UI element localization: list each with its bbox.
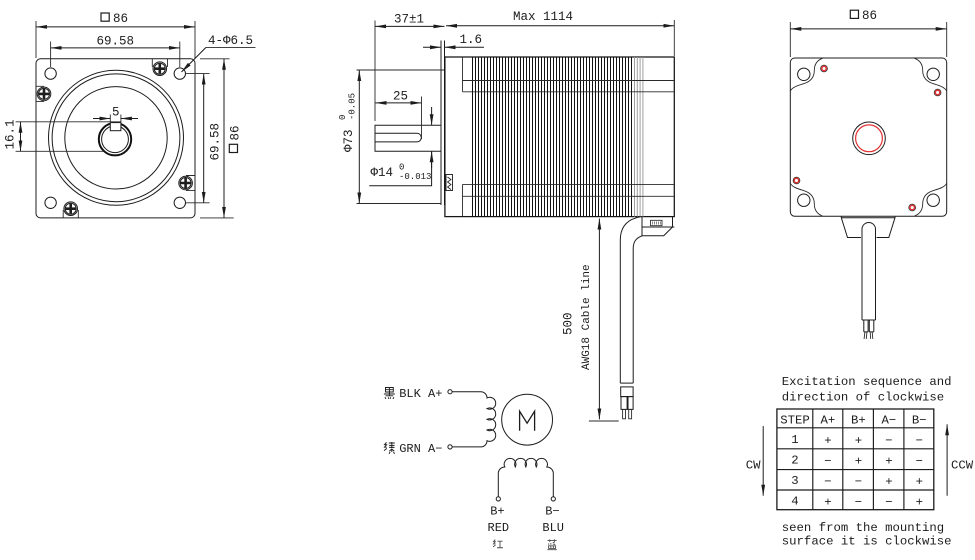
cooling fins bbox=[473, 57, 632, 217]
rear hole TR bbox=[927, 68, 939, 80]
svg-text:86: 86 bbox=[113, 12, 128, 26]
svg-text:-0.013: -0.013 bbox=[399, 172, 431, 182]
connector body bbox=[621, 387, 633, 397]
dim 5 lines bbox=[110, 115, 121, 123]
rear hole BR bbox=[927, 194, 939, 206]
svg-text:RED: RED bbox=[488, 521, 510, 535]
svg-text:37±1: 37±1 bbox=[394, 13, 424, 27]
red pin BL bbox=[793, 177, 800, 184]
letter M bbox=[520, 411, 535, 431]
cable gland side bbox=[642, 217, 674, 236]
dim sq86 top label bbox=[101, 12, 128, 26]
leader 4-phi6.5 bbox=[206, 46, 256, 48]
screw top bbox=[153, 62, 167, 76]
svg-text:−: − bbox=[855, 475, 862, 489]
svg-text:1: 1 bbox=[791, 433, 798, 447]
svg-text:86: 86 bbox=[862, 9, 877, 23]
screw right bbox=[179, 176, 193, 190]
rear gland trapezoid bbox=[841, 216, 895, 237]
dim 16.1 line bbox=[20, 122, 22, 152]
dim phi73 label bbox=[338, 93, 358, 152]
terminal B+ bbox=[496, 497, 500, 501]
shaft circle bold bbox=[99, 123, 131, 155]
dim 25 extension bbox=[421, 97, 423, 140]
svg-text:1.6: 1.6 bbox=[460, 33, 483, 47]
coil A wire bbox=[452, 392, 496, 447]
svg-text:+: + bbox=[885, 475, 892, 489]
svg-text:25: 25 bbox=[393, 90, 408, 104]
rear wire pins bbox=[864, 332, 873, 339]
dim 500 line bbox=[598, 219, 600, 420]
dim phi14 label bbox=[371, 163, 432, 183]
dim Max1114 line bbox=[446, 25, 674, 27]
dim 16.1 extension lines bbox=[16, 122, 121, 152]
label BLK A+ with hei glyph bbox=[384, 388, 395, 399]
svg-text:4: 4 bbox=[791, 494, 798, 508]
CCW arrow bbox=[946, 424, 948, 495]
rear hole BL bbox=[798, 194, 810, 206]
svg-text:A−: A− bbox=[882, 413, 897, 427]
rear cable bbox=[862, 222, 876, 320]
dim Max1114 extension right bbox=[673, 20, 675, 56]
red pin BR bbox=[909, 204, 916, 211]
svg-text:−: − bbox=[824, 475, 831, 489]
label GRN A- with lv glyph bbox=[384, 442, 395, 454]
svg-text:0: 0 bbox=[399, 163, 404, 173]
screw notch left bbox=[36, 86, 44, 101]
dim phi14 line bottom bbox=[369, 151, 431, 185]
dim sq86 rear label bbox=[850, 9, 877, 23]
connector pins bbox=[623, 409, 626, 418]
mounting hole BL bbox=[45, 197, 56, 208]
svg-text:B−: B− bbox=[912, 413, 927, 427]
screw notch right bbox=[186, 176, 195, 191]
shaft outline bbox=[375, 125, 441, 151]
svg-text:direction of clockwise: direction of clockwise bbox=[782, 390, 944, 404]
svg-text:4-Φ6.5: 4-Φ6.5 bbox=[208, 34, 253, 48]
corner boss TR bbox=[915, 58, 947, 91]
shaft inner circle bbox=[102, 126, 129, 153]
fin end gray lines bbox=[635, 57, 643, 217]
svg-text:16.1: 16.1 bbox=[4, 119, 18, 149]
svg-text:GRN A−: GRN A− bbox=[399, 442, 442, 456]
svg-text:+: + bbox=[824, 495, 831, 509]
svg-text:−: − bbox=[916, 434, 923, 448]
svg-text:+: + bbox=[885, 455, 892, 469]
cable outer curve bbox=[620, 217, 640, 383]
svg-text:+: + bbox=[855, 434, 862, 448]
dim 500 baseline bbox=[589, 420, 619, 422]
dim sq86 rear extensions bbox=[790, 22, 946, 57]
dim 69.58 top line bbox=[51, 47, 180, 49]
dim 37 line bbox=[375, 25, 445, 27]
motor body bbox=[445, 57, 674, 217]
svg-text:B−: B− bbox=[545, 505, 559, 519]
svg-text:CW: CW bbox=[746, 459, 761, 473]
rear center circle bbox=[853, 122, 886, 155]
dim sq86 rear line bbox=[790, 28, 946, 30]
dim 1.6 arrows bbox=[423, 46, 441, 48]
terminal A- bbox=[448, 445, 452, 449]
svg-text:69.58: 69.58 bbox=[209, 123, 223, 161]
svg-text:B+: B+ bbox=[490, 505, 504, 519]
pilot circle ring bbox=[52, 74, 180, 202]
svg-text:Excitation sequence and: Excitation sequence and bbox=[782, 375, 952, 389]
svg-text:Φ14: Φ14 bbox=[371, 166, 394, 180]
flange square bbox=[36, 59, 195, 218]
cable end bbox=[620, 382, 633, 384]
svg-text:+: + bbox=[824, 434, 831, 448]
svg-text:CCW: CCW bbox=[951, 459, 974, 473]
svg-text:AWG18 Cable line: AWG18 Cable line bbox=[581, 264, 593, 370]
svg-text:−: − bbox=[885, 434, 892, 448]
dim sq86 top extensions bbox=[36, 21, 195, 58]
corner boss TL bbox=[790, 58, 822, 91]
rotor circle bbox=[65, 87, 167, 189]
svg-text:surface it is clockwise: surface it is clockwise bbox=[782, 535, 952, 549]
dim phi73 line bbox=[358, 70, 360, 204]
svg-text:500: 500 bbox=[562, 312, 576, 335]
svg-text:−: − bbox=[855, 495, 862, 509]
svg-text:seen from the mounting: seen from the mounting bbox=[782, 521, 944, 535]
dim sq86 top line bbox=[36, 26, 195, 28]
dim phi14 line top bbox=[431, 107, 433, 125]
svg-text:0: 0 bbox=[338, 115, 348, 120]
dim 86 right label bbox=[229, 125, 243, 152]
dim 86 right extensions bbox=[200, 59, 234, 218]
red pin TL bbox=[821, 65, 828, 72]
rear center red circle bbox=[856, 125, 883, 152]
pilot bottom edge bbox=[357, 203, 442, 205]
table header bbox=[780, 413, 926, 427]
dim 86 right line bbox=[223, 59, 225, 218]
svg-text:+: + bbox=[916, 475, 923, 489]
label hong glyph bbox=[493, 540, 503, 548]
cable inner curve bbox=[633, 236, 642, 383]
mounting hole TR bbox=[174, 68, 185, 79]
terminal A+ bbox=[448, 390, 452, 394]
svg-text:69.58: 69.58 bbox=[97, 35, 135, 49]
svg-text:STEP: STEP bbox=[780, 413, 810, 427]
screw notch top bbox=[152, 59, 167, 67]
body side label bbox=[446, 175, 453, 191]
rear square bbox=[790, 58, 946, 216]
end cap edge lines bbox=[462, 57, 464, 217]
svg-text:5: 5 bbox=[112, 106, 120, 120]
svg-text:−: − bbox=[824, 455, 831, 469]
rear cable end wires bbox=[862, 320, 876, 332]
svg-text:2: 2 bbox=[791, 454, 798, 468]
label lan glyph bbox=[547, 539, 557, 549]
table rows bbox=[791, 433, 923, 510]
dim 69.58 right line bbox=[203, 74, 205, 203]
tie rod bands bbox=[463, 81, 675, 197]
pilot top edge bbox=[357, 69, 445, 71]
svg-text:Max 1114: Max 1114 bbox=[513, 10, 573, 24]
svg-text:BLK A+: BLK A+ bbox=[399, 387, 442, 401]
CW arrow bbox=[762, 426, 764, 496]
svg-text:A+: A+ bbox=[821, 413, 836, 427]
svg-text:+: + bbox=[916, 495, 923, 509]
svg-text:3: 3 bbox=[791, 474, 798, 488]
dim 69.58 right extensions bbox=[186, 74, 210, 203]
shaft flat slot bbox=[375, 133, 421, 142]
screw notch bottom bbox=[63, 210, 78, 218]
keyway bbox=[110, 123, 121, 131]
gland label bbox=[651, 220, 663, 225]
screw bottom bbox=[64, 202, 78, 216]
dim 25 line bbox=[376, 102, 422, 104]
corner boss BR bbox=[915, 183, 947, 216]
pilot circle outer bbox=[49, 70, 184, 205]
corner boss BL bbox=[790, 183, 822, 216]
table grid bbox=[777, 409, 934, 510]
mounting hole TL bbox=[45, 68, 56, 79]
svg-text:86: 86 bbox=[229, 125, 243, 140]
svg-text:B+: B+ bbox=[851, 413, 866, 427]
rear hole TL bbox=[798, 68, 810, 80]
pilot plate bbox=[441, 41, 445, 206]
red pin TR bbox=[934, 89, 941, 96]
connector housings bbox=[621, 397, 627, 410]
dim 37 extension bbox=[374, 21, 376, 122]
terminal B- bbox=[551, 497, 555, 501]
svg-text:-0.05: -0.05 bbox=[348, 93, 358, 120]
svg-text:+: + bbox=[855, 455, 862, 469]
dim 69.58 top extensions bbox=[51, 42, 180, 68]
coil B wire bbox=[498, 458, 553, 496]
svg-text:−: − bbox=[885, 495, 892, 509]
motor circle M bbox=[502, 394, 553, 445]
screw left bbox=[37, 87, 51, 101]
mounting hole BR bbox=[174, 197, 185, 208]
svg-text:Φ73: Φ73 bbox=[342, 129, 356, 152]
svg-text:BLU: BLU bbox=[542, 521, 564, 535]
svg-text:−: − bbox=[916, 455, 923, 469]
